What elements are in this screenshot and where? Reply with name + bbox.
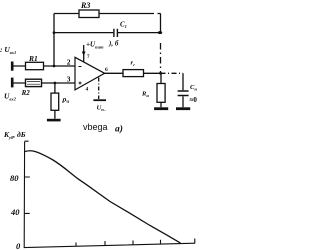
svg-text:Kу0, дБ: Kу0, дБ [3,130,26,140]
svg-text:а): а) [115,124,123,135]
svg-text:4: 4 [86,87,89,93]
svg-text:2: 2 [67,58,71,67]
svg-text:80: 80 [10,173,19,183]
svg-text:R2: R2 [21,89,31,97]
svg-text:40: 40 [10,207,20,217]
svg-text:6: 6 [105,67,108,73]
svg-text:R1: R1 [28,54,38,63]
svg-text:R3: R3 [80,1,90,10]
svg-text:), б: ), б [108,40,119,48]
svg-text:vbega: vbega [83,122,108,132]
svg-text:3: 3 [67,74,71,83]
svg-text:≈0: ≈0 [190,96,198,104]
